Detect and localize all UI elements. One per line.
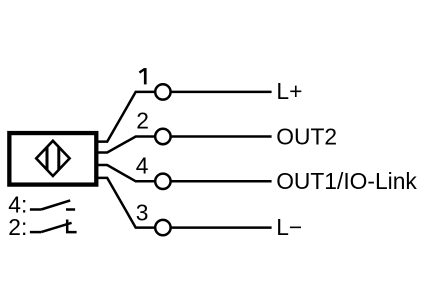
diamond right bar	[57, 147, 60, 170]
wire pin4	[97, 165, 155, 181]
svg-text:OUT1/IO-Link: OUT1/IO-Link	[276, 168, 417, 194]
terminal circle 3	[155, 220, 170, 235]
svg-text:2: 2	[136, 107, 149, 133]
svg-text:3: 3	[136, 200, 149, 226]
terminal circle 4	[155, 174, 170, 189]
pin number 1	[139, 68, 145, 84]
wire pin1	[97, 92, 155, 142]
terminal circle 2	[155, 129, 170, 144]
switch NO contact dash	[66, 208, 75, 211]
terminal circle 1	[155, 84, 170, 99]
svg-text:L+: L+	[276, 78, 302, 104]
diamond left bar	[46, 147, 49, 170]
switch NC arm	[41, 223, 71, 232]
wire L-	[172, 226, 272, 229]
switch NO lead	[30, 208, 41, 211]
wire OUT1	[172, 180, 272, 183]
switch NO arm	[41, 200, 70, 209]
switch NC stop bracket	[67, 220, 76, 233]
sensor diamond symbol	[36, 141, 69, 176]
wire OUT2	[172, 135, 272, 138]
svg-text:OUT2: OUT2	[276, 123, 337, 149]
switch NC lead	[30, 231, 41, 234]
sensor box U1	[9, 133, 96, 185]
wire pin3	[97, 178, 155, 228]
svg-text:4: 4	[136, 153, 149, 179]
wire pin2	[97, 137, 155, 153]
svg-text:L−: L−	[276, 214, 302, 240]
wire L+	[172, 91, 272, 94]
svg-text:2:: 2:	[8, 214, 27, 240]
